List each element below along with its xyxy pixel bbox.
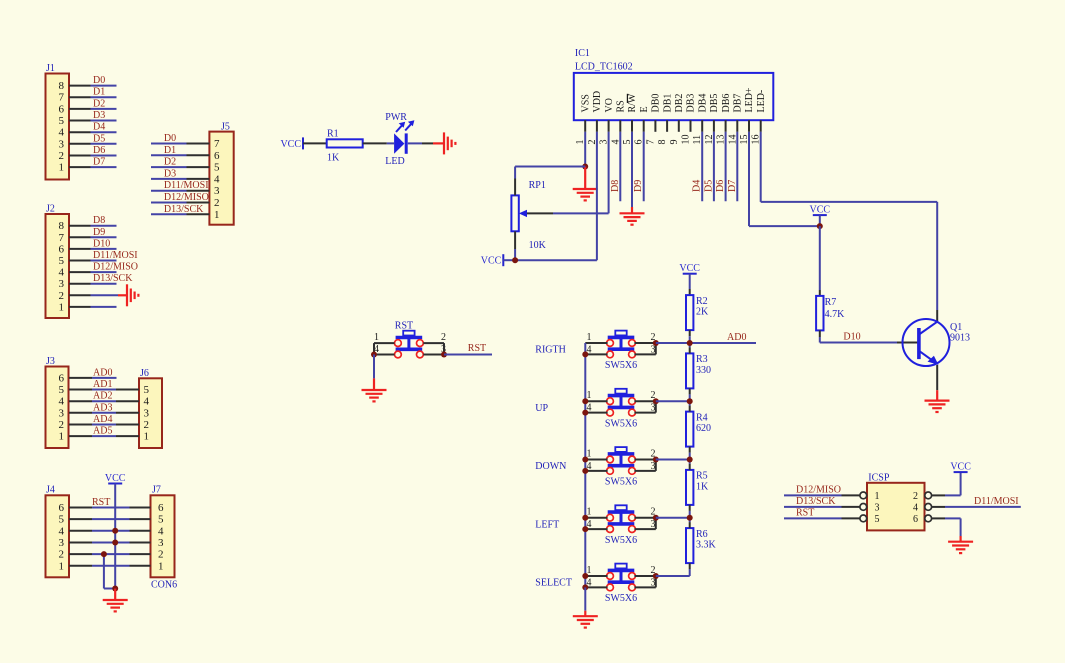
ground below J4-J7 [103, 600, 128, 611]
RP1 designator [529, 180, 546, 191]
wire DOWN right link [655, 460, 657, 471]
ICSP pin 2 circle [925, 492, 932, 499]
wire RIGTH pin 1 [585, 342, 607, 344]
svg-text:AD4: AD4 [93, 414, 112, 425]
potentiometer RP1 body [511, 195, 518, 231]
J3 pin 4 stub [69, 400, 92, 402]
wire VCC to R7 node [819, 215, 821, 226]
RIGTH pin 4 number [587, 344, 592, 355]
svg-text:R5: R5 [696, 471, 708, 482]
ICSP pin 1 number [875, 491, 880, 502]
J2 pin 1 stub [69, 306, 91, 308]
junction IC1 pin1-RP1 [582, 164, 588, 170]
J5 pin 5 number [214, 162, 220, 174]
svg-text:6: 6 [59, 103, 65, 115]
IC1 pin name E [639, 106, 650, 112]
net label AD4 [93, 414, 112, 425]
J1 pin 7 number [59, 92, 65, 104]
junction left rail RIGTH pin 4 [582, 351, 588, 357]
wire RST button right link [443, 343, 445, 354]
wire IC1 pin 14 DB7 [736, 132, 738, 201]
svg-text:3: 3 [158, 537, 164, 549]
R4 value 620 [696, 423, 711, 434]
wire D1 to J5 pin 6 [151, 154, 209, 156]
wire D13/SCK to ICSP pin 3 [784, 506, 860, 508]
junction at J4 row 2 [101, 551, 107, 557]
svg-text:SW5X6: SW5X6 [605, 535, 637, 546]
svg-text:D0: D0 [164, 133, 176, 144]
wire D12/MISO to J5 pin 2 [151, 202, 209, 204]
junction at bottom of J4 net [112, 586, 118, 592]
IC1 pin 6 stub [643, 120, 645, 132]
J2 pin 4 stub [69, 271, 91, 273]
ground below IC1 pin 5 [620, 213, 645, 224]
IC1 pin 5 stub [631, 120, 633, 132]
svg-text:3: 3 [875, 502, 880, 513]
net label D10 [93, 238, 110, 249]
Q1 value 9013 [950, 333, 970, 344]
wire IC1 pin 3 VO to RP1 wiper [527, 132, 609, 214]
IC1 pin 12 number [704, 135, 715, 145]
IC1 pin name DB2 [674, 94, 685, 113]
svg-text:RST: RST [92, 497, 110, 508]
J6 pin 1 number [144, 431, 150, 443]
wire AD5 J3 pin 1 to J6 pin 1 [92, 435, 139, 437]
svg-text:D5: D5 [93, 133, 105, 144]
wire D6 from J1 pin 2 [91, 155, 117, 157]
junction UP pin 2 [653, 398, 659, 404]
junction left rail UP pin 1 [582, 398, 588, 404]
wire DOWN pin 3 [634, 470, 655, 472]
svg-text:3.3K: 3.3K [696, 540, 717, 551]
IC1 pin 4 stub [619, 120, 621, 132]
resistor R1 [327, 139, 363, 147]
wire IC1 pin 12 DB5 [713, 132, 715, 201]
IC1 pin 8 stub [666, 120, 668, 132]
junction at RST button pin 4 [371, 352, 377, 358]
J6 pin 3 number [144, 407, 150, 419]
IC1 pin 9 stub [678, 120, 680, 132]
ground right of LED [444, 132, 455, 154]
J4 pin 3 number [59, 537, 65, 549]
wire VCC to R1 [303, 142, 327, 144]
svg-text:3: 3 [59, 537, 65, 549]
svg-text:SW5X6: SW5X6 [605, 418, 637, 429]
LEFT pin 2 number [651, 507, 656, 518]
wire R3 to R4 [689, 388, 691, 411]
net label D6 [93, 145, 105, 156]
svg-text:6: 6 [59, 502, 65, 514]
wire VCC to RP1 node [503, 259, 515, 261]
junction left rail SELECT pin 1 [582, 573, 588, 579]
wire DOWN pin 2 [634, 459, 655, 461]
svg-text:1: 1 [374, 332, 379, 343]
wire RST button pin 3 [423, 354, 444, 356]
svg-text:10K: 10K [529, 240, 547, 251]
J1 pin 8 stub [69, 85, 91, 87]
SELECT label [535, 578, 572, 589]
wire R6 to SELECT row [689, 563, 691, 576]
junction RP1-VCC-VDD [512, 257, 518, 263]
wire J2 pin 2 to ground [91, 294, 128, 296]
net label D2 at J5 [164, 157, 176, 168]
connector J5 [209, 132, 233, 225]
ICSP designator [868, 472, 890, 483]
net label AD5 [93, 426, 112, 437]
ICSP pin 5 number [875, 514, 880, 525]
push button RST [395, 331, 424, 358]
IC1 pin name LED+ [744, 87, 755, 112]
junction at J4 row 3 [112, 540, 118, 546]
svg-text:LED-: LED- [756, 90, 767, 113]
svg-text:DB4: DB4 [697, 94, 708, 113]
connector J3 [46, 367, 69, 449]
wire D4 from J1 pin 4 [91, 131, 117, 133]
J7 pin 4 number [158, 525, 164, 537]
resistor R6 [686, 528, 693, 563]
J1 pin 5 stub [69, 120, 91, 122]
junction at RST button pin 3 [441, 352, 447, 358]
svg-text:8: 8 [59, 80, 65, 92]
svg-text:6: 6 [158, 502, 164, 514]
net label D1 at J5 [164, 145, 176, 156]
wire RIGTH right link [655, 343, 657, 354]
junction VCC-R7-LEDplus [817, 223, 823, 229]
RST button pin 1 number [374, 332, 379, 343]
J2 pin 5 number [59, 255, 65, 267]
IC1 value LCD_TC1602 [575, 61, 633, 72]
J2 pin 6 stub [69, 248, 91, 250]
wire IC1 pin 6 E [643, 132, 645, 201]
RIGTH value SW5X6 [605, 360, 637, 371]
push button DOWN (SW5X6) [607, 447, 636, 474]
wire Q1 emitter to ground [936, 365, 938, 401]
svg-text:6: 6 [913, 514, 918, 525]
IC1 R/W overline [626, 94, 628, 103]
LED value LED [385, 156, 404, 167]
net label D13/SCK at J5 [164, 204, 204, 215]
wire SELECT right link [655, 576, 657, 587]
svg-text:RST: RST [468, 343, 486, 354]
svg-text:3: 3 [59, 407, 65, 419]
R1 designator [327, 129, 339, 140]
net label D13/SCK [93, 273, 133, 284]
R2 designator [696, 296, 708, 307]
junction left rail LEFT pin 4 [582, 526, 588, 532]
svg-text:D1: D1 [93, 87, 105, 98]
svg-text:D2: D2 [164, 157, 176, 168]
svg-text:RIGTH: RIGTH [535, 345, 566, 356]
svg-text:D5: D5 [703, 180, 714, 192]
svg-text:4: 4 [59, 525, 65, 537]
R3 value 330 [696, 365, 711, 376]
svg-text:LEFT: LEFT [535, 519, 559, 530]
svg-text:D11/MOSI: D11/MOSI [974, 496, 1019, 507]
svg-text:2: 2 [214, 197, 220, 209]
svg-text:D9: D9 [93, 227, 105, 238]
wire RST button to ground [373, 355, 375, 391]
DOWN pin 3 number [651, 461, 656, 472]
wire J4 pin 2 to J7 pin 2 [69, 553, 151, 555]
net label D11/MOSI [93, 250, 138, 261]
svg-text:2: 2 [441, 332, 446, 343]
svg-text:J6: J6 [140, 368, 149, 379]
wire LED to ground [408, 142, 444, 144]
ground below RST button [362, 390, 387, 401]
ICSP pin 4 number [913, 502, 918, 513]
J4 pin 4 number [59, 525, 65, 537]
J2 pin 8 number [59, 220, 65, 232]
net label D11/MOSI [974, 496, 1019, 507]
J1 pin 5 number [59, 115, 65, 127]
connector J6 designator [140, 368, 149, 379]
svg-text:5: 5 [59, 514, 65, 526]
net label D3 at J5 [164, 168, 176, 179]
junction left rail DOWN pin 1 [582, 457, 588, 463]
wire DOWN pin 4 [585, 470, 607, 472]
svg-text:4: 4 [59, 267, 65, 279]
IC1 pin name DB3 [686, 94, 697, 113]
svg-text:1: 1 [875, 491, 880, 502]
R7 designator [825, 297, 837, 308]
svg-text:2: 2 [59, 150, 65, 162]
wire IC1 pin 11 DB4 [701, 132, 703, 201]
svg-text:5: 5 [59, 115, 65, 127]
wire IC1 pin 13 DB6 [725, 132, 727, 201]
svg-text:330: 330 [696, 365, 711, 376]
svg-text:RST: RST [395, 321, 413, 332]
RIGTH pin 2 number [651, 332, 656, 343]
push button LEFT (SW5X6) [607, 505, 636, 532]
wire AD4 J3 pin 2 to J6 pin 2 [92, 424, 139, 426]
svg-text:D3: D3 [93, 110, 105, 121]
svg-text:D3: D3 [164, 168, 176, 179]
svg-text:D1: D1 [164, 145, 176, 156]
svg-text:4: 4 [158, 525, 164, 537]
wire D9 from J2 pin 7 [91, 236, 117, 238]
wire AD0 net [690, 342, 756, 344]
svg-text:D0: D0 [93, 75, 105, 86]
svg-text:6: 6 [59, 372, 65, 384]
J7 pin 5 number [158, 514, 164, 526]
svg-text:9: 9 [669, 140, 680, 145]
svg-text:5: 5 [158, 514, 164, 526]
connector J4 [46, 495, 70, 577]
J3 pin 1 number [59, 431, 65, 443]
svg-text:8: 8 [59, 220, 65, 232]
svg-text:1: 1 [59, 162, 65, 174]
wire SELECT pin 1 [585, 575, 607, 577]
svg-text:D4: D4 [692, 180, 703, 192]
IC1 pin 16 number [751, 135, 762, 145]
J2 pin 7 stub [69, 236, 91, 238]
IC1 pin 14 stub [736, 120, 738, 132]
power port VCC at ICSP [950, 462, 971, 473]
ground below ICSP [948, 542, 973, 553]
J7 pin 6 number [158, 502, 164, 514]
J3 pin 6 number [59, 372, 65, 384]
svg-text:J5: J5 [221, 122, 230, 133]
net label D9 [93, 227, 105, 238]
svg-text:UP: UP [535, 403, 548, 414]
svg-text:D6: D6 [715, 180, 726, 192]
LEFT pin 1 number [587, 507, 592, 518]
svg-text:10: 10 [681, 135, 692, 145]
net label RST at J4 pin 6 [92, 497, 110, 508]
IC1 pin name DB5 [709, 94, 720, 113]
SELECT pin 1 number [587, 565, 592, 576]
svg-text:D9: D9 [633, 180, 644, 192]
junction SELECT pin 2 [653, 573, 659, 579]
svg-text:D11/MOSI: D11/MOSI [93, 250, 138, 261]
svg-text:VCC: VCC [950, 462, 971, 473]
net label D0 at J5 [164, 133, 176, 144]
resistor R3 [686, 353, 693, 388]
svg-text:AD0: AD0 [727, 332, 746, 343]
svg-text:E: E [639, 106, 650, 112]
wire UP pin 1 [585, 400, 607, 402]
svg-text:2: 2 [913, 491, 918, 502]
wire D12/MISO to ICSP pin 1 [784, 494, 860, 496]
IC1 pin 15 stub [748, 120, 750, 132]
svg-text:4: 4 [144, 396, 150, 408]
wire from J4 row 2 down [104, 554, 115, 588]
J7 value CON6 [151, 580, 177, 591]
net label D5 [93, 133, 105, 144]
net label D8 at IC1 pin 4 [610, 180, 621, 192]
wire J4 pin 1 to J7 pin 1 [69, 565, 151, 567]
net label D0 [93, 75, 105, 86]
LEFT pin 3 number [651, 519, 656, 530]
svg-text:D7: D7 [727, 180, 738, 192]
svg-text:AD5: AD5 [93, 426, 112, 437]
svg-text:D12/MISO: D12/MISO [164, 192, 209, 203]
wire D3 to J5 pin 4 [151, 178, 209, 180]
wire left rail to ground [584, 587, 586, 616]
wire UP to resistor chain [656, 400, 690, 402]
svg-text:DB5: DB5 [709, 94, 720, 113]
wire RP1 top to IC1 pin 1 [515, 167, 585, 196]
IC1 pin 11 stub [701, 120, 703, 132]
J3 pin 2 number [59, 419, 65, 431]
resistor R2 [686, 295, 693, 330]
resistor R4 [686, 412, 693, 447]
J1 pin 6 stub [69, 108, 91, 110]
UP pin 1 number [587, 390, 592, 401]
J3 pin 3 number [59, 407, 65, 419]
svg-text:1: 1 [59, 560, 65, 572]
R1 value 1K [327, 153, 340, 164]
svg-text:DB3: DB3 [686, 94, 697, 113]
junction chain at AD0 node [687, 340, 693, 346]
junction left rail UP pin 4 [582, 410, 588, 416]
LED designator PWR [385, 112, 407, 123]
J6 pin 5 number [144, 384, 150, 396]
svg-text:D8: D8 [610, 180, 621, 192]
svg-text:3: 3 [144, 407, 150, 419]
svg-text:VDD: VDD [592, 91, 603, 113]
svg-text:PWR: PWR [385, 112, 407, 123]
svg-text:VCC: VCC [280, 139, 301, 150]
svg-text:7: 7 [645, 140, 656, 145]
net label D6 at IC1 pin 13 [715, 180, 726, 192]
wire IC1 pin 2 VDD [515, 132, 597, 260]
wire IC1 pin 5 RW to ground [631, 132, 633, 214]
connector ICSP body [867, 483, 925, 531]
LED arrows [396, 120, 414, 132]
IC1 pin 9 number [669, 140, 680, 145]
LEFT label [535, 519, 559, 530]
svg-text:4.7K: 4.7K [825, 309, 846, 320]
wire DOWN to resistor chain [656, 459, 690, 461]
svg-text:AD1: AD1 [93, 379, 112, 390]
ICSP pin 6 number [913, 514, 918, 525]
wire J4 pin 4 to J7 pin 4 [69, 530, 151, 532]
J2 pin 8 stub [69, 225, 91, 227]
wire IC1 pin 1 VSS to ground node [584, 132, 586, 167]
net label RST [468, 343, 486, 354]
svg-text:5: 5 [214, 162, 220, 174]
J2 pin 6 number [59, 243, 65, 255]
net label RST at ICSP [796, 507, 814, 518]
svg-text:2: 2 [59, 419, 65, 431]
svg-text:IC1: IC1 [575, 48, 590, 59]
J2 pin 2 number [59, 290, 65, 302]
J2 pin 7 number [59, 232, 65, 244]
connector J4 designator [46, 485, 55, 496]
wire LEFT pin 2 [634, 517, 655, 519]
svg-text:DB6: DB6 [721, 94, 732, 113]
wire RIGTH to resistor chain [656, 342, 690, 344]
svg-text:1: 1 [214, 209, 220, 221]
svg-text:DB0: DB0 [651, 94, 662, 113]
svg-text:J2: J2 [46, 204, 55, 215]
IC1 pin 7 stub [654, 120, 656, 132]
svg-text:AD0: AD0 [93, 367, 112, 378]
SELECT pin 3 number [651, 577, 656, 588]
J7 pin 1 number [158, 560, 164, 572]
wire AD3 J3 pin 3 to J6 pin 3 [92, 412, 139, 414]
J5 pin 7 number [214, 138, 220, 150]
connector J5 designator [221, 122, 230, 133]
wire AD2 J3 pin 4 to J6 pin 4 [92, 400, 139, 402]
svg-text:D2: D2 [93, 98, 105, 109]
J1 pin 6 number [59, 103, 65, 115]
wire IC1 pin 4 RS [619, 132, 621, 201]
wire D5 from J1 pin 3 [91, 143, 117, 145]
J1 pin 4 number [59, 127, 65, 139]
svg-text:2: 2 [59, 549, 65, 561]
wire D0 to J5 pin 7 [151, 143, 209, 145]
power port VCC above R2 [679, 263, 700, 274]
RST button pin 3 number [441, 344, 446, 355]
ICSP pin 1 circle [860, 492, 867, 499]
svg-text:5: 5 [875, 514, 880, 525]
J2 pin 3 stub [69, 283, 91, 285]
wire D12/MISO from J2 pin 4 [91, 271, 117, 273]
net label AD2 [93, 391, 112, 402]
wire RST button pin 1 [374, 342, 395, 344]
net label D10 [843, 332, 860, 343]
svg-text:7: 7 [214, 138, 220, 150]
ICSP pin 3 number [875, 502, 880, 513]
wire RIGTH pin 2 [634, 342, 655, 344]
LED PWR diode [394, 133, 406, 153]
J3 pin 3 stub [69, 412, 92, 414]
IC1 pin 13 number [716, 135, 727, 145]
svg-text:R6: R6 [696, 529, 708, 540]
svg-text:1: 1 [59, 431, 65, 443]
